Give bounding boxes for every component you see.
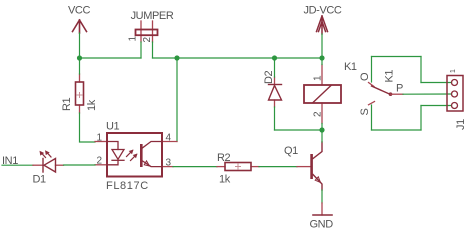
optocoupler U1 [95, 121, 177, 193]
svg-text:VCC: VCC [68, 5, 90, 17]
pin 4 stub [162, 141, 177, 143]
contact O mark [369, 83, 375, 87]
wire O up [371, 57, 373, 83]
svg-text:1: 1 [97, 132, 103, 143]
svg-text:J1: J1 [455, 119, 467, 130]
wire O drop [420, 57, 422, 83]
resistor R1 [61, 74, 98, 113]
svg-text:O: O [359, 72, 371, 81]
wire JD-VCC stem [321, 34, 323, 58]
svg-text:1: 1 [313, 75, 324, 81]
wire S rise [420, 106, 422, 131]
svg-text:4: 4 [166, 132, 172, 143]
resistor R2 [217, 152, 259, 186]
power symbol JD-VCC [304, 5, 342, 35]
svg-text:P: P [396, 83, 403, 95]
wire emitter [321, 190, 323, 203]
wire VCC junction to jumper pin 1 [80, 57, 142, 59]
wire D2 top [274, 58, 276, 77]
switch arm [372, 86, 391, 95]
internal LED [107, 142, 118, 150]
svg-text:1: 1 [450, 69, 457, 73]
wire O top horizontal [372, 56, 422, 58]
wire IN1 [2, 155, 33, 167]
node JD-VCC junction [319, 55, 324, 60]
transistor Q1 [284, 142, 322, 190]
svg-text:D1: D1 [33, 174, 47, 186]
wire D2 bottom [274, 107, 276, 130]
wire O to J1 pin1 [421, 82, 452, 84]
node U1 pin4 tap [174, 55, 179, 60]
node collector junction [319, 127, 324, 132]
relay coil K1 [304, 61, 357, 124]
wire U1 pin4 riser [176, 58, 178, 142]
wire S to J1 pin3 [421, 105, 452, 107]
svg-text:2: 2 [142, 37, 153, 43]
wire R1 bottom to U1 pin 1 [80, 113, 96, 142]
svg-text:GND: GND [310, 219, 334, 231]
pin 1 lead [140, 21, 142, 42]
package box [107, 133, 162, 177]
node D2 tap [272, 55, 277, 60]
svg-text:U1: U1 [106, 121, 120, 133]
wire S bottom horizontal [372, 129, 422, 131]
node VCC junction [77, 55, 82, 60]
pin 1 stub [95, 141, 107, 143]
LED D1 [33, 150, 64, 185]
jumper body bar [136, 30, 158, 36]
wire coil pin2 [321, 124, 323, 131]
svg-text:K1: K1 [344, 61, 357, 73]
wire collector [321, 130, 323, 142]
svg-text:JUMPER: JUMPER [131, 10, 174, 22]
svg-text:2: 2 [313, 111, 324, 117]
wire S down [371, 105, 373, 130]
contact S mark [369, 102, 375, 105]
pin 2 stub [95, 164, 107, 166]
svg-text:FL817C: FL817C [106, 180, 149, 192]
wire jumper pin1 down [140, 42, 142, 58]
svg-text:R1: R1 [61, 97, 73, 111]
ground [310, 203, 334, 231]
wire D2 to collector node [275, 129, 323, 131]
light arrows [127, 151, 137, 161]
wire jumper pin2 down [152, 42, 154, 58]
svg-text:K1: K1 [384, 70, 396, 83]
wire U1 pin 3 to R2 [173, 166, 217, 168]
emission arrows [41, 152, 51, 158]
wire D1 to U1 pin 2 [64, 164, 96, 166]
jumper JP1 [128, 10, 174, 43]
pin 3 stub [162, 166, 173, 168]
svg-text:S: S [359, 109, 371, 116]
diode D2 [263, 70, 282, 107]
connector J1 [447, 69, 467, 130]
svg-text:1k: 1k [219, 174, 231, 186]
pivot [389, 92, 393, 96]
svg-text:D2: D2 [263, 70, 275, 84]
wire R1 top [79, 58, 81, 74]
svg-text:3: 3 [166, 157, 172, 168]
wire jumper pin2 to JD-VCC node [153, 57, 323, 59]
svg-text:1: 1 [128, 36, 139, 42]
svg-text:1k: 1k [86, 99, 98, 111]
svg-text:JD-VCC: JD-VCC [304, 5, 342, 17]
pole lead [391, 93, 404, 95]
svg-text:Q1: Q1 [284, 145, 298, 157]
wire P to J1 pin2 [403, 93, 452, 95]
svg-text:2: 2 [97, 155, 103, 166]
power symbol VCC [68, 5, 90, 34]
wire coil pin1 [321, 58, 323, 65]
pin 2 lead [152, 21, 154, 42]
relay contact K1 [359, 70, 403, 116]
photo transistor [140, 144, 143, 167]
wire VCC stem [79, 33, 81, 58]
wire R2 to Q1 base [259, 166, 297, 168]
